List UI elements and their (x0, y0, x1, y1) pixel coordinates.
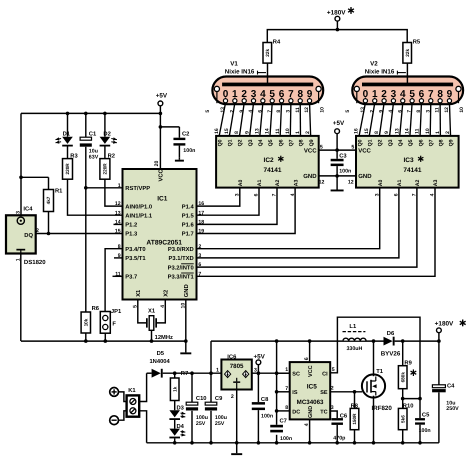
svg-text:12: 12 (444, 107, 450, 113)
svg-text:680k: 680k (400, 372, 405, 383)
svg-text:C1: C1 (89, 130, 97, 137)
svg-text:4k7: 4k7 (46, 196, 51, 204)
svg-text:100n: 100n (261, 414, 273, 420)
svg-text:10: 10 (425, 128, 431, 134)
svg-text:X1: X1 (148, 309, 156, 315)
svg-text:Q5: Q5 (268, 139, 274, 146)
svg-text:2: 2 (231, 394, 234, 400)
svg-text:12: 12 (319, 179, 325, 185)
svg-text:6: 6 (198, 262, 201, 268)
svg-text:+180V: +180V (435, 320, 454, 327)
svg-text:6: 6 (257, 110, 263, 113)
svg-text:10: 10 (285, 128, 291, 134)
svg-text:R4: R4 (273, 39, 281, 45)
svg-text:C7: C7 (280, 417, 287, 424)
svg-text:+5V: +5V (254, 353, 266, 360)
svg-text:5: 5 (345, 110, 351, 113)
svg-text:100n: 100n (419, 428, 431, 434)
svg-text:1N4004: 1N4004 (149, 358, 170, 365)
svg-text:Q4: Q4 (258, 139, 264, 146)
svg-text:A0: A0 (238, 179, 244, 186)
svg-text:+180V: +180V (327, 10, 346, 17)
svg-text:470p: 470p (333, 436, 346, 442)
svg-text:2: 2 (331, 386, 334, 392)
svg-text:AT89C2051: AT89C2051 (146, 239, 182, 246)
svg-text:P3.2/INT0: P3.2/INT0 (168, 264, 194, 271)
svg-text:IC1: IC1 (157, 195, 168, 202)
svg-text:8: 8 (416, 110, 422, 113)
svg-text:16: 16 (198, 201, 204, 207)
svg-text:7: 7 (285, 386, 288, 392)
svg-text:VCC: VCC (308, 365, 314, 377)
svg-text:C3: C3 (339, 153, 347, 160)
svg-text:VCC: VCC (304, 147, 317, 154)
svg-text:P1.5: P1.5 (182, 213, 195, 219)
svg-text:L1: L1 (349, 324, 357, 330)
svg-text:12MHz: 12MHz (155, 334, 173, 341)
svg-text:A2: A2 (415, 179, 421, 186)
svg-text:7805: 7805 (230, 363, 244, 370)
svg-text:C10: C10 (196, 395, 207, 402)
svg-text:TC: TC (320, 409, 327, 415)
svg-text:11: 11 (435, 107, 441, 113)
svg-text:R2: R2 (108, 153, 115, 160)
svg-text:Q4: Q4 (398, 139, 404, 146)
svg-text:2: 2 (305, 131, 311, 134)
svg-text:8: 8 (234, 131, 240, 134)
svg-text:2: 2 (198, 244, 201, 250)
svg-text:P3.7: P3.7 (125, 274, 137, 281)
svg-text:JP1: JP1 (111, 309, 122, 315)
svg-text:15: 15 (224, 128, 230, 134)
svg-text:5k6: 5k6 (400, 415, 405, 423)
svg-text:AIN0/P1.0: AIN0/P1.0 (125, 203, 152, 210)
svg-text:P3.1/TXD: P3.1/TXD (169, 255, 194, 262)
svg-text:MC34063: MC34063 (297, 399, 324, 406)
svg-text:100n: 100n (183, 148, 195, 154)
svg-text:1k: 1k (172, 386, 177, 392)
svg-text:GND: GND (183, 284, 190, 297)
svg-text:220R: 220R (65, 163, 70, 175)
svg-text:13: 13 (254, 128, 260, 134)
svg-text:X2: X2 (162, 290, 169, 297)
svg-text:10: 10 (459, 107, 465, 113)
svg-text:A1: A1 (257, 179, 263, 186)
svg-text:9: 9 (239, 110, 245, 113)
svg-text:3: 3 (15, 211, 21, 214)
svg-text:17: 17 (198, 210, 204, 216)
svg-text:A3: A3 (293, 179, 299, 186)
svg-text:R10: R10 (403, 402, 414, 409)
svg-text:5: 5 (205, 110, 211, 113)
svg-text:R5: R5 (413, 39, 421, 45)
svg-text:P1.7: P1.7 (182, 232, 194, 238)
svg-text:IC3: IC3 (403, 157, 414, 164)
svg-text:P1.6: P1.6 (182, 222, 195, 229)
svg-text:P3.5/T1: P3.5/T1 (125, 255, 146, 262)
svg-text:Q0: Q0 (217, 139, 223, 146)
svg-text:IC4: IC4 (23, 206, 33, 213)
svg-text:R6: R6 (92, 305, 100, 312)
svg-text:X1: X1 (136, 289, 142, 297)
svg-text:VCC: VCC (358, 147, 371, 154)
svg-text:Q5: Q5 (408, 139, 414, 146)
svg-text:+5V: +5V (156, 93, 168, 100)
svg-text:4: 4 (388, 110, 394, 113)
svg-text:F: F (112, 322, 116, 328)
svg-text:100n: 100n (339, 168, 351, 174)
svg-text:P3.3/INT1: P3.3/INT1 (168, 274, 195, 281)
svg-text:13: 13 (394, 128, 400, 134)
svg-text:P1.3: P1.3 (125, 231, 138, 238)
svg-text:R8: R8 (351, 402, 359, 409)
svg-text:IRF820: IRF820 (372, 405, 393, 412)
svg-text:AIN1/P1.1: AIN1/P1.1 (125, 212, 153, 219)
svg-text:16: 16 (214, 128, 220, 134)
svg-text:IC6: IC6 (227, 353, 237, 360)
svg-text:2: 2 (369, 110, 375, 113)
svg-text:C9: C9 (215, 395, 223, 402)
svg-text:D2: D2 (103, 130, 110, 137)
svg-text:15: 15 (364, 128, 370, 134)
svg-text:9: 9 (384, 131, 390, 134)
svg-text:A3: A3 (433, 179, 439, 186)
svg-text:Q9: Q9 (309, 139, 315, 146)
svg-text:GND: GND (308, 406, 314, 418)
svg-text:14: 14 (265, 128, 271, 134)
svg-text:10k: 10k (84, 318, 89, 326)
svg-text:1: 1 (216, 367, 219, 373)
svg-text:3: 3 (254, 367, 257, 373)
svg-text:25V: 25V (196, 421, 206, 427)
svg-text:330uH: 330uH (346, 346, 362, 352)
svg-text:2: 2 (229, 110, 235, 113)
svg-text:2: 2 (445, 131, 451, 134)
svg-text:14: 14 (405, 128, 411, 134)
svg-text:8: 8 (285, 405, 288, 411)
svg-text:D1: D1 (63, 131, 71, 137)
svg-text:BYV26: BYV26 (381, 350, 401, 357)
svg-text:Q3: Q3 (388, 139, 394, 146)
svg-text:R9: R9 (404, 360, 412, 367)
svg-text:7: 7 (267, 110, 273, 113)
svg-text:74141: 74141 (263, 167, 281, 174)
svg-text:Q8: Q8 (439, 139, 445, 146)
svg-text:IC5: IC5 (307, 383, 318, 390)
svg-text:11: 11 (415, 128, 421, 134)
svg-text:3: 3 (425, 110, 431, 113)
svg-text:63V: 63V (89, 154, 99, 160)
svg-text:T1: T1 (376, 369, 384, 375)
svg-text:22k: 22k (405, 49, 410, 57)
svg-text:13: 13 (220, 107, 226, 113)
svg-text:DQ: DQ (24, 232, 33, 239)
svg-text:D5: D5 (157, 351, 165, 357)
svg-text:1: 1 (285, 367, 288, 373)
svg-text:9: 9 (244, 131, 250, 134)
svg-text:Q2: Q2 (238, 139, 244, 146)
svg-text:C8: C8 (261, 396, 269, 403)
svg-text:10: 10 (319, 107, 325, 113)
svg-text:Q6: Q6 (278, 139, 284, 146)
svg-text:C6: C6 (340, 412, 348, 419)
svg-text:150R: 150R (352, 413, 357, 425)
svg-text:9: 9 (379, 110, 385, 113)
svg-text:16: 16 (354, 128, 360, 134)
svg-text:13: 13 (360, 107, 366, 113)
svg-text:P3.0/RXD: P3.0/RXD (168, 246, 194, 253)
svg-text:250V: 250V (446, 406, 459, 412)
svg-text:V1: V1 (230, 60, 238, 67)
svg-text:RST/VPP: RST/VPP (125, 185, 150, 192)
svg-text:A1: A1 (397, 179, 403, 186)
svg-text:1: 1 (295, 131, 301, 134)
svg-text:D6: D6 (387, 330, 395, 337)
svg-text:74141: 74141 (403, 167, 421, 174)
svg-text:P3.4/T0: P3.4/T0 (125, 246, 145, 253)
svg-text:Q8: Q8 (299, 139, 305, 146)
svg-text:Q6: Q6 (418, 139, 424, 146)
svg-text:Q2: Q2 (378, 139, 384, 146)
svg-text:+5V: +5V (333, 120, 345, 127)
svg-text:20: 20 (154, 161, 160, 167)
svg-text:SC: SC (292, 371, 300, 377)
svg-text:DS1820: DS1820 (24, 259, 46, 266)
svg-text:8: 8 (374, 131, 380, 134)
svg-text:GND: GND (358, 173, 372, 180)
svg-text:K1: K1 (128, 388, 136, 394)
svg-text:11: 11 (275, 128, 281, 134)
svg-text:V2: V2 (370, 60, 378, 67)
svg-text:12: 12 (348, 179, 354, 185)
svg-text:Q7: Q7 (428, 139, 434, 146)
svg-text:C4: C4 (447, 382, 455, 389)
svg-text:1: 1 (435, 131, 441, 134)
svg-text:7: 7 (198, 271, 201, 277)
svg-text:C2: C2 (182, 130, 189, 137)
svg-text:Q3: Q3 (248, 139, 254, 146)
svg-text:Q7: Q7 (289, 139, 295, 146)
svg-text:100n: 100n (280, 436, 292, 442)
svg-text:CI: CI (322, 371, 328, 377)
svg-text:R1: R1 (55, 188, 63, 194)
svg-text:GND: GND (303, 173, 317, 180)
svg-text:4: 4 (248, 110, 254, 113)
svg-text:DC: DC (292, 409, 300, 415)
svg-text:25V: 25V (215, 421, 225, 427)
svg-text:C5: C5 (422, 412, 430, 419)
svg-text:3: 3 (285, 110, 291, 113)
svg-text:P1.4: P1.4 (182, 204, 195, 210)
svg-text:6: 6 (397, 110, 403, 113)
svg-text:12: 12 (304, 107, 310, 113)
svg-text:R3: R3 (70, 153, 78, 160)
svg-text:Q9: Q9 (449, 139, 455, 146)
svg-text:VCC: VCC (158, 168, 165, 181)
svg-text:Q1: Q1 (228, 139, 234, 146)
svg-text:19: 19 (198, 229, 204, 235)
svg-text:IS: IS (292, 390, 298, 396)
svg-text:A0: A0 (378, 179, 384, 186)
svg-text:3: 3 (331, 405, 334, 411)
svg-text:22k: 22k (265, 49, 270, 57)
svg-text:Q0: Q0 (357, 139, 363, 146)
svg-text:R7: R7 (181, 371, 188, 377)
svg-text:A2: A2 (275, 179, 281, 186)
svg-text:7: 7 (407, 110, 413, 113)
svg-text:8: 8 (276, 110, 282, 113)
svg-text:18: 18 (198, 220, 204, 226)
svg-text:11: 11 (295, 107, 301, 113)
svg-text:3: 3 (198, 253, 201, 259)
svg-text:P1.2: P1.2 (125, 222, 137, 229)
svg-text:220R: 220R (103, 163, 108, 175)
svg-text:Nixie IN16: Nixie IN16 (225, 68, 255, 75)
svg-text:IC2: IC2 (264, 157, 275, 164)
svg-text:SE: SE (320, 390, 328, 396)
svg-text:Nixie IN16: Nixie IN16 (365, 68, 395, 75)
svg-text:Q1: Q1 (367, 139, 373, 146)
